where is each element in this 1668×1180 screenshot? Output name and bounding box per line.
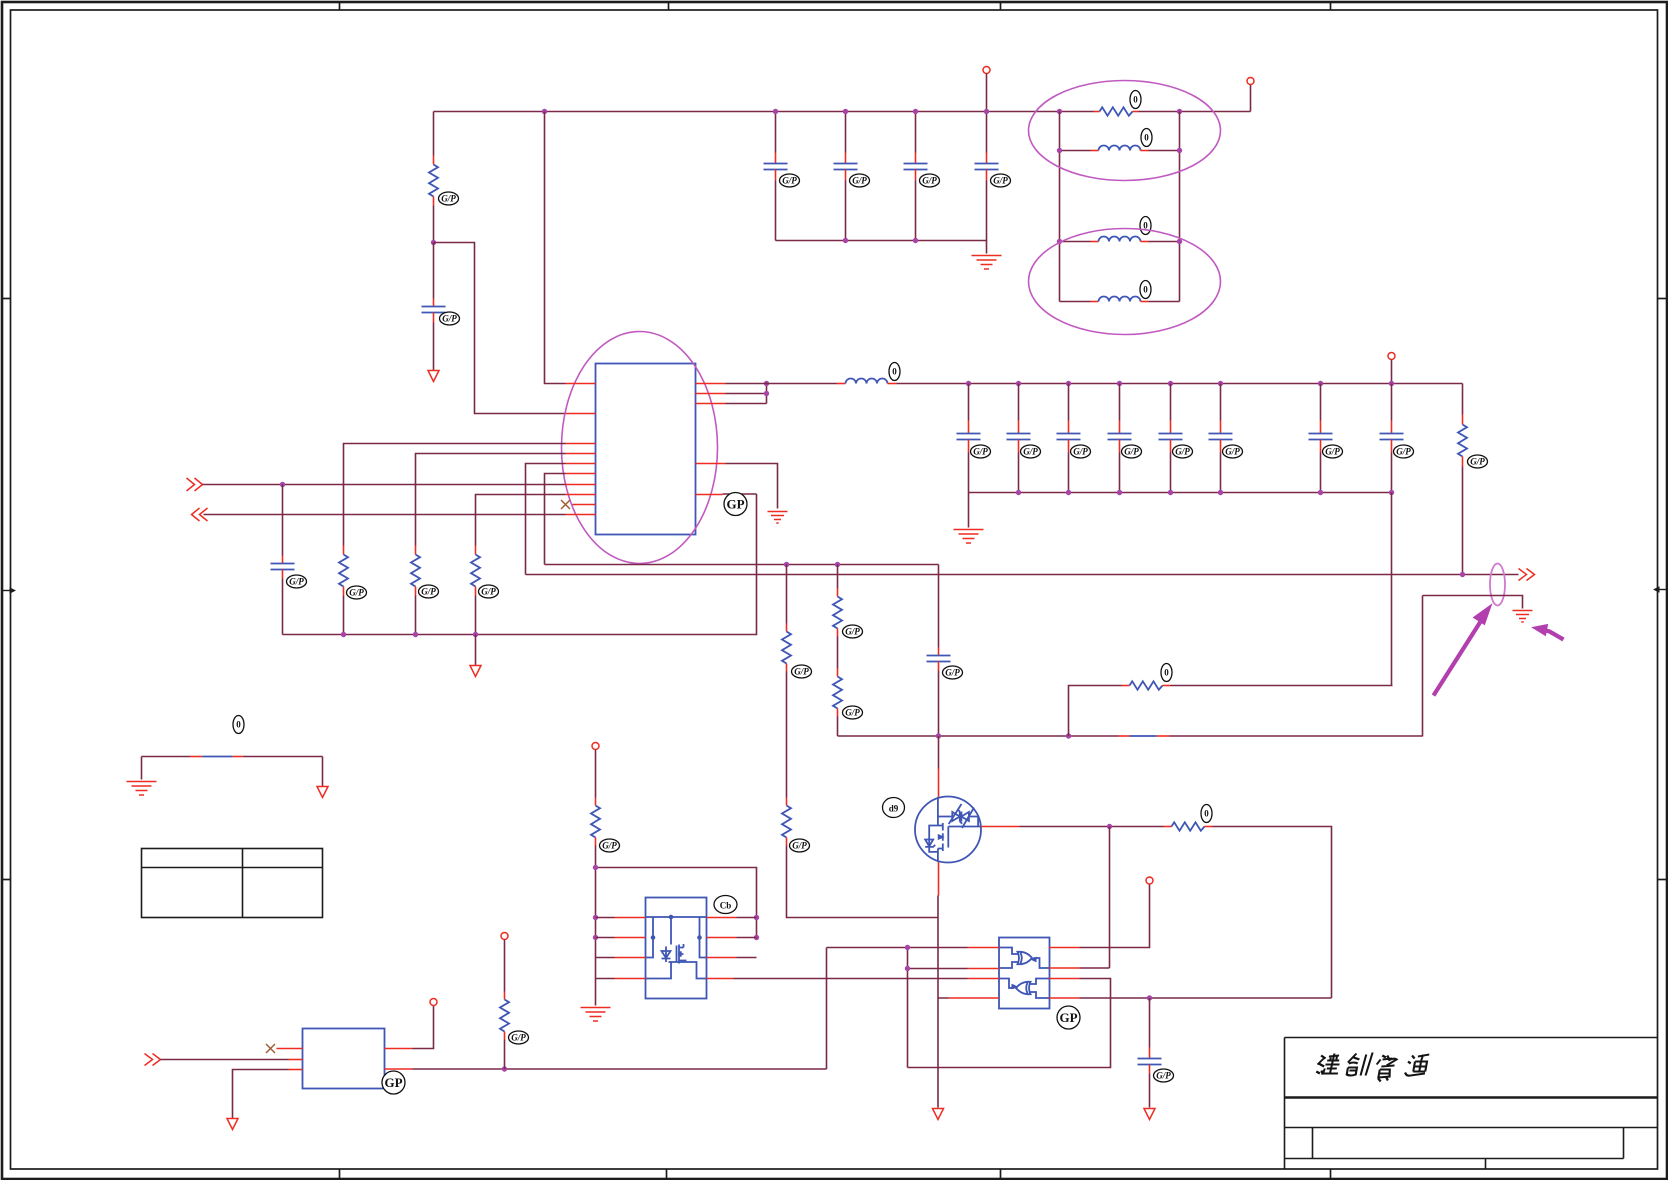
label R7 xyxy=(792,665,812,678)
label L2 xyxy=(1140,217,1151,235)
wire U2 out to U3 in C xyxy=(734,978,968,980)
capacitor C3 xyxy=(834,112,858,241)
label R8 xyxy=(790,839,810,852)
terminal J2 xyxy=(983,67,990,74)
wire U3 in B xyxy=(908,968,968,970)
label C2 xyxy=(780,174,800,187)
wire U4 out2 long rail xyxy=(413,948,827,1070)
inductor L1 xyxy=(1060,146,1180,151)
U1 right pin stubs xyxy=(696,384,726,495)
transistor Q1 circle xyxy=(915,797,981,863)
label R1 xyxy=(439,192,459,205)
ground U1 pin12 xyxy=(768,512,788,524)
wire U2 left pins tie xyxy=(596,918,615,979)
label L4 xyxy=(889,363,900,381)
wire gate loop to x1331 xyxy=(1213,827,1332,999)
wire resistor-bank bottom bus xyxy=(283,494,757,635)
highlight ellipse upper xyxy=(1029,81,1221,181)
terminal J3 xyxy=(1388,353,1395,360)
no-connect x on pin 9 xyxy=(561,500,570,509)
U1 left pin stubs xyxy=(566,384,596,515)
capacitor C2 xyxy=(764,112,788,241)
wire IN1 to U1 pin7 xyxy=(203,484,566,486)
label R2 xyxy=(1130,91,1141,109)
highlight arrow 1 xyxy=(1434,605,1492,696)
label C15 xyxy=(943,666,963,679)
border centre arrow left xyxy=(2,587,16,593)
wire U3 out B to gate net xyxy=(1080,967,1110,969)
power arrow down R5 xyxy=(470,666,481,677)
wire U3 out D rail xyxy=(1080,997,1332,999)
resistor R7 xyxy=(782,565,791,798)
node U1 pin1 xyxy=(764,381,769,386)
mosfet block U2 xyxy=(646,898,707,999)
inductor L2 xyxy=(1060,237,1180,242)
capacitor C9 xyxy=(1057,384,1081,493)
ferrite bead FB2 xyxy=(1119,735,1170,737)
title text company logotype glyphs xyxy=(1316,1053,1430,1082)
wire U4 out1 to terminal xyxy=(413,1006,434,1049)
label C5 xyxy=(991,174,1011,187)
U3 internals xyxy=(999,948,1049,999)
wire IN2 to U1 pin10 xyxy=(204,514,566,516)
label C14 xyxy=(1394,445,1414,458)
power arrow down C1 xyxy=(428,371,439,382)
node U3 inA xyxy=(905,945,910,950)
resistor R6 xyxy=(1458,384,1467,575)
terminal J1 xyxy=(1247,78,1254,85)
capacitor C15 xyxy=(927,565,951,737)
label C7 xyxy=(971,445,991,458)
wire to ground cap bank xyxy=(968,493,970,528)
node U1 pin2 xyxy=(764,391,769,396)
resistor R3 xyxy=(339,444,566,635)
wire VOUT bus xyxy=(897,383,1463,385)
label R10 xyxy=(843,706,863,719)
label L1 xyxy=(1141,129,1152,147)
svg-text:d9: d9 xyxy=(889,804,899,814)
node at cap C6 tap xyxy=(280,482,285,487)
power arrow down FB1 xyxy=(317,787,328,798)
wire U4 pin3 to power arrow xyxy=(233,1070,289,1119)
connector OUT chevrons xyxy=(1519,569,1535,581)
terminal J7 xyxy=(501,933,508,940)
block U4 xyxy=(303,1029,385,1089)
capacitor C7 xyxy=(957,384,981,493)
label R9 xyxy=(843,625,863,638)
label C6 xyxy=(287,575,307,588)
capacitor C6 xyxy=(271,485,295,635)
node U3 inB xyxy=(905,966,910,971)
node C16 tap xyxy=(1147,995,1152,1000)
wire lower mid bus xyxy=(526,574,1519,576)
power flag GP U4 xyxy=(382,1071,405,1094)
wire U1 pins2-3 tie xyxy=(726,384,767,404)
label R12 xyxy=(1201,805,1212,823)
U2 internals xyxy=(646,916,707,979)
node x595 junctions xyxy=(593,865,598,870)
resistor R4 xyxy=(411,454,566,635)
resistor R11 inline xyxy=(1122,681,1171,689)
label C12 xyxy=(1223,445,1243,458)
node R7 tap xyxy=(784,562,789,567)
node dots y735 bus xyxy=(936,733,941,738)
node A (433,242) xyxy=(431,240,436,245)
capacitor C1 xyxy=(422,243,446,371)
label C3 xyxy=(850,174,870,187)
wire drain riser Q1 xyxy=(938,736,940,798)
wire node A to x474 xyxy=(434,243,566,414)
ground FB1 xyxy=(127,782,157,796)
node dots VOUT bus xyxy=(966,381,971,386)
label C8 xyxy=(1021,445,1041,458)
label R4 xyxy=(419,585,439,598)
ground x595 xyxy=(581,1008,611,1022)
wire FB1 right drop xyxy=(322,757,324,787)
wire IN3 to U4 xyxy=(161,1059,289,1061)
wire gate Q1 xyxy=(981,826,1164,828)
node dots inductor rails xyxy=(1057,148,1062,153)
wire terminal J2 drop xyxy=(986,74,988,112)
ferrite bead FB1 net xyxy=(142,756,323,758)
label R6 xyxy=(1468,455,1488,468)
wire U2 right pins tie xyxy=(737,918,757,958)
label R3 xyxy=(347,586,367,599)
terminal J4 xyxy=(1146,877,1153,884)
highlight ellipse around U1 xyxy=(562,332,718,564)
U4 pin stubs xyxy=(277,1049,413,1070)
terminal J6 xyxy=(430,999,437,1006)
no-connect x U4 pin1 xyxy=(266,1044,275,1053)
capacitor C10 xyxy=(1108,384,1132,493)
label C9 xyxy=(1071,445,1091,458)
connector IN3 chevrons xyxy=(145,1054,161,1066)
wire sense branch x1068 xyxy=(1069,686,1122,737)
wire cap group bottom bus xyxy=(776,241,987,254)
wire U3 pin D to source rail xyxy=(938,998,949,1108)
highlight ellipse lower xyxy=(1029,229,1221,335)
connector IN2 chevrons xyxy=(192,508,208,521)
label C1 xyxy=(440,312,460,325)
node R9 tap xyxy=(835,562,840,567)
label U2 xyxy=(714,896,737,914)
node dots cap bank bottom bus xyxy=(1016,490,1021,495)
highlight arrow 2 xyxy=(1533,625,1564,640)
svg-text:Cb: Cb xyxy=(720,901,732,911)
power arrow down U4 xyxy=(227,1119,238,1130)
resistor R10 xyxy=(833,669,842,737)
wire stub below R5 xyxy=(475,635,477,666)
IC U1 xyxy=(596,364,696,535)
ground cap group xyxy=(972,256,1002,270)
power arrow down C16 xyxy=(1144,1109,1155,1120)
label C13 xyxy=(1323,445,1343,458)
capacitor C8 xyxy=(1007,384,1031,493)
resistor R9 xyxy=(833,565,842,669)
capacitor C13 xyxy=(1309,384,1333,493)
revision table xyxy=(142,849,323,918)
border centre arrow right xyxy=(1653,586,1667,592)
wire U3 C loop xyxy=(908,948,1111,1068)
power arrow down source rail xyxy=(933,1109,944,1120)
power flag GP U3 xyxy=(1057,1006,1080,1029)
label R11 xyxy=(1161,664,1172,682)
wire feedback drop x1391 xyxy=(1391,493,1393,686)
inductor L3 xyxy=(1060,297,1180,302)
wire to ground right xyxy=(1423,596,1523,609)
wire U1 pin11 via GP flag xyxy=(723,493,757,495)
wire x595 to ground xyxy=(595,979,597,1006)
capacitor C16 xyxy=(1138,998,1162,1108)
U3 pin stubs xyxy=(949,948,1080,999)
wire terminal J3 drop xyxy=(1391,360,1393,384)
wire R11 to x1392 xyxy=(1171,685,1393,687)
node dots top bus xyxy=(542,109,547,114)
wire U1 pin6 to upper bus xyxy=(545,474,566,565)
ground right xyxy=(1513,611,1533,623)
wire feedback riser x1422 xyxy=(1422,596,1424,737)
resistor R2 inline top bus xyxy=(1094,107,1139,115)
resistor R5 xyxy=(471,495,566,635)
label C16 xyxy=(1154,1069,1174,1082)
node dots bottom bus xyxy=(341,632,346,637)
node dots cap bottom bus xyxy=(843,238,848,243)
label C4 xyxy=(920,174,940,187)
capacitor C14 xyxy=(1380,384,1404,493)
power flag GP U1 xyxy=(724,493,747,516)
label R5 xyxy=(479,585,499,598)
resistor R12 inline gate xyxy=(1164,822,1213,830)
title block frame xyxy=(1285,1038,1658,1170)
wire source Q1 xyxy=(937,862,940,999)
wire right riser x1179 xyxy=(1179,112,1181,302)
capacitor C4 xyxy=(904,112,928,241)
highlight small ellipse xyxy=(1490,564,1505,606)
U2 pin stubs xyxy=(615,918,737,979)
wire FB1 left drop xyxy=(141,757,143,780)
label C10 xyxy=(1122,445,1142,458)
wire U1 pin12 to ground xyxy=(726,464,778,509)
gate block U3 xyxy=(999,938,1050,1009)
label C11 xyxy=(1173,445,1193,458)
wire U3 in A xyxy=(827,947,968,949)
label L3 xyxy=(1140,281,1151,299)
wire left riser x1059 xyxy=(1059,112,1061,302)
node gate net xyxy=(1107,824,1112,829)
node x756 junctions xyxy=(754,915,759,920)
wire cap bank bottom bus xyxy=(969,492,1392,494)
node R14 tap xyxy=(502,1066,507,1071)
inductor L4 xyxy=(837,379,897,384)
terminal J5 xyxy=(592,743,599,750)
wire upper mid bus xyxy=(545,564,939,566)
wire terminal drop J1 xyxy=(1250,85,1252,112)
resistor R14 xyxy=(500,940,509,1070)
resistor R13 xyxy=(591,750,600,979)
capacitor C5 xyxy=(975,112,999,241)
wire mid lower bus y735 xyxy=(838,735,1423,737)
label FB1 xyxy=(233,716,244,734)
label R14 xyxy=(509,1031,529,1044)
capacitor C11 xyxy=(1159,384,1183,493)
wire U1 pin5 to lower bus xyxy=(526,464,566,575)
label R13 xyxy=(600,839,620,852)
wire U1 pin1 to inductor xyxy=(726,383,837,385)
wire x595 to Cb right rail xyxy=(596,868,757,938)
connector IN1 chevrons xyxy=(187,478,203,491)
capacitor C12 xyxy=(1209,384,1233,493)
wire top bus VIN xyxy=(434,111,1251,113)
resistor R8 xyxy=(782,798,938,918)
wire x544 from top bus to U1 pin1 xyxy=(545,112,566,384)
wire U3 out A to terminal xyxy=(1080,885,1150,948)
transistor Q1 internals xyxy=(925,797,981,862)
ground cap bank xyxy=(954,530,984,544)
node bus-R6 junction xyxy=(1460,572,1465,577)
label Q1 xyxy=(883,798,905,818)
wire gate sense riser x1109 xyxy=(1109,827,1111,969)
resistor R1 vertical xyxy=(429,112,438,243)
